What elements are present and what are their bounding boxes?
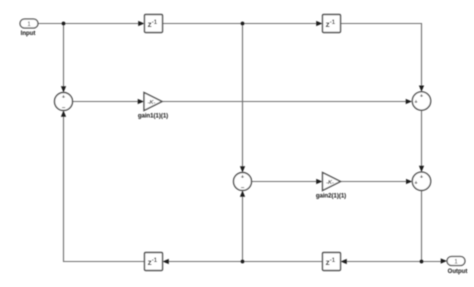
svg-text:+: + <box>241 175 244 181</box>
arrowhead into S3 top <box>419 86 424 92</box>
wire: junction B down to sum S2 top <box>242 24 244 175</box>
arrowhead into S2 bottom <box>240 191 245 197</box>
node D junction (bottom right split) <box>420 260 424 264</box>
wire: sum S4 down to bottom junction D <box>421 191 423 262</box>
svg-text:−: − <box>241 186 245 192</box>
arrowhead into Z1 <box>138 21 144 26</box>
arrowhead into S1 bottom <box>61 111 66 117</box>
wire: Z3 to left bottom corner and up to sum S1 bottom input <box>64 109 145 262</box>
delay block Z1 (z^-1) <box>145 15 163 33</box>
arrowhead into G2 <box>316 179 322 184</box>
sum S3 (top right) <box>412 92 430 110</box>
wire: junction D left into Z4 <box>344 261 422 263</box>
node B junction (top mid split) <box>241 22 245 26</box>
wire: sum S1 to gain G1 <box>73 101 142 103</box>
arrowhead into S3 left <box>406 99 412 104</box>
outport block Output <box>447 257 467 275</box>
arrowhead into Z3 right side (leftward) <box>163 259 169 264</box>
wire: Z4 to junction C <box>243 261 323 263</box>
inport block Input <box>20 19 38 37</box>
svg-text:−: − <box>62 106 66 112</box>
sum S1 (left) <box>55 93 73 112</box>
wire: junction C up to sum S2 bottom input <box>242 189 244 262</box>
node C junction (bottom mid split) <box>241 260 245 264</box>
svg-text:Output: Output <box>448 269 468 275</box>
wire: sum S2 to gain G2 <box>252 181 320 183</box>
sum S4 (bottom right) <box>412 172 430 190</box>
svg-text:-K-: -K- <box>148 100 156 106</box>
wire: gain G1 to sum S3 left input <box>162 101 409 103</box>
gain G1 <box>138 93 168 120</box>
svg-text:+: + <box>62 95 65 101</box>
svg-text:+: + <box>414 180 417 186</box>
arrowhead into S4 top <box>419 166 424 172</box>
arrowhead into S2 top <box>240 166 245 172</box>
delay block Z4 (z^-1, bottom right) <box>323 253 341 271</box>
svg-text:Input: Input <box>21 31 36 37</box>
arrowhead into G1 <box>138 99 144 104</box>
arrowhead into output port <box>441 258 447 263</box>
wire: Z2 to right corner and down into sum S3 <box>341 24 422 94</box>
sum S2 (middle) <box>234 173 252 192</box>
arrowhead into Z4 right side (leftward) <box>341 259 347 264</box>
svg-text:+: + <box>420 94 423 100</box>
arrowhead into Z2 <box>316 21 322 26</box>
gain G2 <box>316 173 346 200</box>
wire: Z1 to Z2 (top) <box>163 23 320 25</box>
wire: junction C left into Z3 <box>166 261 243 263</box>
wire: junction D to output port <box>422 261 445 263</box>
wire: input to Z1 (top) <box>38 23 141 25</box>
delay block Z3 (z^-1, bottom left) <box>145 253 163 271</box>
wire: sum S3 down to sum S4 <box>421 110 423 174</box>
svg-text:+: + <box>420 175 423 181</box>
svg-text:-K-: -K- <box>326 180 334 186</box>
svg-text:gain2(1)(1): gain2(1)(1) <box>316 194 346 200</box>
svg-text:+: + <box>414 100 417 106</box>
svg-text:gain1(1)(1): gain1(1)(1) <box>138 114 168 120</box>
wire: junction A down to sum S1 top <box>63 24 65 95</box>
arrowhead into S4 left <box>406 179 412 184</box>
delay block Z2 (z^-1) <box>323 15 341 33</box>
node A junction (input split) <box>62 22 66 26</box>
wire: gain G2 to sum S4 left input <box>341 181 410 183</box>
arrowhead into S1 top <box>61 86 66 92</box>
